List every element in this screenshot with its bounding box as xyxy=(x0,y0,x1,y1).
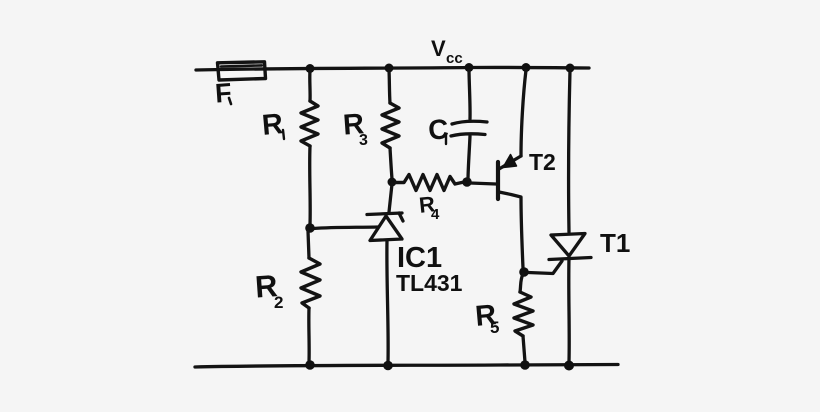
thyristor T1 xyxy=(528,70,591,362)
node dot top rail at R1 xyxy=(306,64,315,73)
svg-text:R: R xyxy=(261,108,285,142)
label TL431 xyxy=(396,270,463,296)
resistor R3 xyxy=(382,70,399,179)
node dot bottom rail at TL431 anode xyxy=(383,361,393,371)
label T2 xyxy=(529,149,556,175)
IC TL431 U1 xyxy=(313,184,403,362)
svg-text:TL431: TL431 xyxy=(396,270,463,296)
fuse F1 xyxy=(218,62,266,80)
label R1 xyxy=(261,108,285,142)
node dot top rail at C1 xyxy=(465,63,474,72)
node dot R4/C1/T2-base junction xyxy=(462,177,472,187)
label Vcc xyxy=(431,36,463,67)
resistor R5 xyxy=(514,274,533,362)
resistor R1 xyxy=(301,70,318,225)
label R2 xyxy=(254,268,283,312)
resistor R4 xyxy=(396,175,464,191)
svg-text:4: 4 xyxy=(431,206,440,223)
label T1 xyxy=(600,228,630,258)
node dot bottom rail at R2 xyxy=(305,360,315,370)
wire bottom rail xyxy=(195,365,618,368)
node dot top rail at R3 xyxy=(385,64,394,73)
capacitor C1 xyxy=(451,70,487,179)
label F1 xyxy=(214,78,233,109)
label IC1 xyxy=(397,242,442,274)
svg-text:2: 2 xyxy=(274,293,283,312)
node dot R3/R4 junction xyxy=(388,178,397,187)
label R3 xyxy=(342,108,368,149)
node dot bottom rail at T1 cathode xyxy=(564,361,574,371)
label C1 xyxy=(427,113,450,146)
label R5 xyxy=(474,299,499,337)
resistor R2 xyxy=(301,231,320,362)
transistor T2 xyxy=(470,70,526,268)
svg-text:T1: T1 xyxy=(600,228,630,258)
svg-text:T2: T2 xyxy=(529,149,556,175)
node dot top rail at T1 anode xyxy=(566,64,575,73)
wire top rail Vcc xyxy=(196,67,589,70)
svg-text:3: 3 xyxy=(359,132,368,149)
svg-text:5: 5 xyxy=(490,318,499,337)
node dot T2-collector/gate/R5 junction xyxy=(519,267,529,277)
node dot bottom rail at R5 xyxy=(520,360,530,370)
svg-text:V: V xyxy=(431,36,446,61)
label R4 xyxy=(418,191,440,223)
node dot R1/R2/ref junction xyxy=(305,223,315,233)
svg-text:cc: cc xyxy=(446,50,463,67)
node dot top rail at T2 emitter xyxy=(522,63,531,72)
